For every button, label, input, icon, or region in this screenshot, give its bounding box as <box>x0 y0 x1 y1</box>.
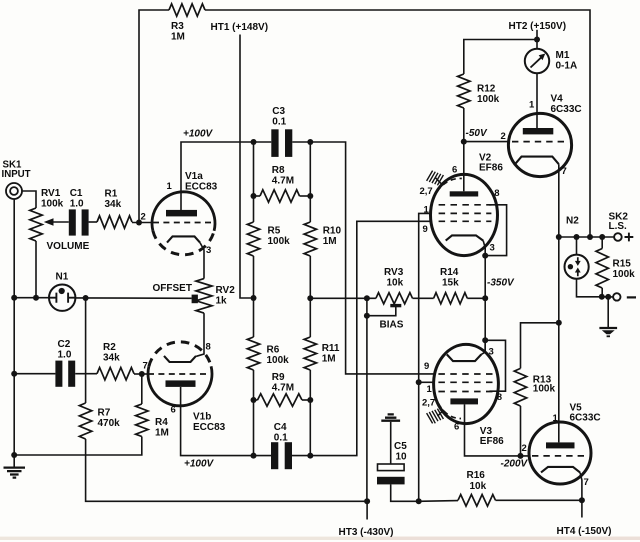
svg-text:10k: 10k <box>387 278 404 289</box>
wire (N1 to RV2 wiper / OFFSET) <box>75 297 191 299</box>
svg-text:C5: C5 <box>394 441 407 452</box>
svg-text:4.7M: 4.7M <box>272 176 294 187</box>
wire (RV3 wiper to bias node) <box>367 307 396 316</box>
V1b pin 8 label <box>206 342 211 353</box>
svg-text:1: 1 <box>424 205 430 216</box>
V3 pin 3 label <box>489 347 494 358</box>
svg-text:ECC83: ECC83 <box>185 182 218 193</box>
node dots on ground rail <box>11 295 17 458</box>
R1 value label <box>105 189 122 211</box>
svg-text:1.0: 1.0 <box>58 350 72 361</box>
svg-text:1M: 1M <box>323 236 337 247</box>
C5 value label <box>394 441 407 463</box>
node HT2 stub <box>536 30 538 40</box>
node HT4 label <box>557 526 612 537</box>
svg-text:6C33C: 6C33C <box>570 412 601 423</box>
svg-text:8: 8 <box>206 342 211 353</box>
V2 anode plate <box>450 191 479 196</box>
V1b name label <box>193 412 226 434</box>
RV3 value label <box>384 267 404 289</box>
resistor R13 <box>514 368 526 406</box>
svg-text:EF86: EF86 <box>479 162 503 173</box>
triode V1a envelope (dashed arc, shared bulb) <box>153 231 214 255</box>
wire (V3 pin1 from rail) <box>419 381 434 383</box>
V1a pin 1 label <box>167 181 173 192</box>
svg-text:V4: V4 <box>551 94 564 105</box>
svg-text:34k: 34k <box>103 353 120 364</box>
meter M1 <box>525 49 549 73</box>
svg-text:1: 1 <box>529 100 535 111</box>
wire (V2 pin1 rail down) <box>419 213 431 501</box>
wire (V2 screen pin8 step) <box>485 205 506 256</box>
svg-text:R14: R14 <box>440 267 459 278</box>
node HT4 stub <box>581 500 583 517</box>
BIAS label <box>380 320 404 331</box>
wire (R14 to V2/V3 cathode rail) <box>467 297 485 299</box>
resistor R2 <box>97 368 134 380</box>
V1a pin 2 label <box>141 212 146 223</box>
svg-text:6: 6 <box>171 405 176 416</box>
svg-text:1M: 1M <box>322 354 336 365</box>
R4 value label <box>155 417 169 439</box>
node dots left rail <box>251 193 257 459</box>
node dots right rail <box>307 193 313 459</box>
triode V1b envelope (dashed arc, shared bulb) <box>149 342 211 366</box>
wire (R12 to -50V node) <box>463 108 465 142</box>
capacitor C3 <box>271 129 292 157</box>
node dots minus node <box>599 294 611 300</box>
R11 value label <box>322 343 340 365</box>
node -350V label <box>487 278 515 289</box>
V5 pin 1 label <box>553 413 559 424</box>
svg-text:BIAS: BIAS <box>380 320 404 331</box>
C2 value label <box>58 339 72 361</box>
V3 grids (dashed rows) <box>438 374 493 392</box>
V3 chassis hatch (pins 2,7) <box>427 409 444 424</box>
wire (HT2 dot to M1) <box>536 40 538 49</box>
svg-text:R5: R5 <box>268 226 281 237</box>
V1a cathode <box>167 236 200 242</box>
svg-text:4.7M: 4.7M <box>272 383 294 394</box>
V2 pins 2,7 label <box>420 186 433 197</box>
svg-text:N2: N2 <box>566 216 579 227</box>
wire (R16 to V5 cathode node) <box>496 499 582 501</box>
wire (pin1 rail to R16) <box>419 500 458 503</box>
potentiometer RV2 <box>196 279 212 314</box>
svg-text:C1: C1 <box>70 188 83 199</box>
capacitor C1 <box>69 209 89 235</box>
triode V4 envelope <box>508 113 571 176</box>
wire (R9 stubs) <box>254 399 311 401</box>
C3 value label <box>272 106 286 128</box>
node HT1 label <box>211 22 269 33</box>
C1 value label <box>70 188 84 210</box>
wire (N2 to SK2 - node) <box>577 279 602 297</box>
wire (R15 to SK2 - node) <box>601 288 603 297</box>
wire (right ladder rail) <box>309 142 311 456</box>
V4 name label <box>551 94 582 116</box>
svg-text:R15: R15 <box>613 259 632 270</box>
resistor R10 <box>304 222 316 256</box>
svg-text:470k: 470k <box>98 418 121 429</box>
svg-text:100k: 100k <box>613 269 636 280</box>
svg-text:10k: 10k <box>470 481 487 492</box>
svg-text:2,7: 2,7 <box>422 397 435 408</box>
wire (feedback top rail, output to V1a grid node) <box>139 10 590 237</box>
node HT3 stub <box>366 501 368 519</box>
svg-text:34k: 34k <box>105 199 122 210</box>
svg-text:RV2: RV2 <box>216 285 236 296</box>
svg-text:3: 3 <box>206 245 211 256</box>
wire (R7 top lead) <box>85 298 87 403</box>
connector SK1 input jack <box>6 183 22 199</box>
resistor R1 <box>97 216 132 228</box>
node HT3 label <box>339 527 394 538</box>
resistor R6 <box>247 337 259 370</box>
wire (V5 cathode pin7 down) <box>580 472 582 500</box>
V5 cathode <box>541 467 580 473</box>
R7 value label <box>98 408 121 430</box>
RV1 wiper arrow <box>44 218 69 226</box>
wire (V3 screen pin8 step) <box>485 340 505 391</box>
wire (output to R15) <box>601 237 603 249</box>
V1a name label <box>185 171 218 193</box>
V3 name label <box>480 426 504 447</box>
wire (C1 to R1) <box>89 221 97 223</box>
svg-text:-350V: -350V <box>487 278 515 289</box>
R3 value label <box>171 21 185 43</box>
resistor R15 <box>596 249 608 289</box>
SK1 labels <box>2 160 31 181</box>
svg-text:R10: R10 <box>323 226 342 237</box>
node -200V label <box>501 459 529 470</box>
svg-text:8: 8 <box>494 188 499 199</box>
svg-text:3: 3 <box>490 243 495 254</box>
neon lamp N2 <box>565 255 589 279</box>
triode V1a envelope (solid arc) <box>152 192 215 231</box>
V5 name label <box>570 403 601 424</box>
svg-text:M1: M1 <box>556 50 570 61</box>
potentiometer RV3 <box>376 293 413 304</box>
svg-text:R8: R8 <box>272 165 285 176</box>
svg-text:HT4 (-150V): HT4 (-150V) <box>557 526 612 537</box>
page-edge band (bottom) <box>0 537 640 540</box>
node +100V (V1a anode) label <box>183 129 214 140</box>
RV2 wiper <box>192 295 198 304</box>
ground (left earth symbol) <box>4 468 26 478</box>
svg-text:7: 7 <box>143 361 148 372</box>
svg-text:V1a: V1a <box>185 171 203 182</box>
R13 value label <box>533 375 556 395</box>
wire (R2 to V1b grid) <box>134 373 148 375</box>
SK2 labels <box>609 212 629 233</box>
node dot R13 bottom <box>518 453 524 459</box>
V3 pin 1 label <box>427 384 433 395</box>
wire (RV1 bottom to ground wire) <box>35 241 37 298</box>
svg-text:9: 9 <box>424 361 429 372</box>
V5 grid (dashed) <box>532 455 588 457</box>
svg-text:V1b: V1b <box>193 412 211 423</box>
svg-text:0.1: 0.1 <box>274 433 288 444</box>
V4 cathode <box>515 157 559 165</box>
resistor R9 <box>258 394 303 406</box>
svg-text:R3: R3 <box>171 21 184 32</box>
svg-text:7: 7 <box>584 477 589 488</box>
node -50V label <box>466 128 488 139</box>
V3 internal shield (dashed arc) <box>439 404 462 419</box>
wire (V1a cathode pin3 down) <box>200 243 204 279</box>
svg-text:+100V: +100V <box>183 129 214 140</box>
wire (right rail to RV3) <box>310 297 376 299</box>
R6 value label <box>267 345 290 367</box>
V2 cathode <box>446 235 484 240</box>
V2 name label <box>479 153 503 174</box>
wire (HT2 to R12) <box>464 40 537 75</box>
svg-text:-50V: -50V <box>466 128 488 139</box>
node HT2 label <box>509 21 567 32</box>
svg-text:R2: R2 <box>103 342 116 353</box>
V3 pins 2,7 label <box>422 397 435 408</box>
svg-text:2: 2 <box>522 443 527 454</box>
N1 label <box>56 272 69 283</box>
wire (cathode rail -350V) <box>484 256 486 353</box>
pentode V3 envelope <box>434 344 499 423</box>
wire (R7 bottom to HT3 rail) <box>86 439 368 501</box>
wire (output node to SK2 +) <box>559 236 614 238</box>
V1b anode plate <box>166 380 196 387</box>
RV1 value label <box>41 188 64 210</box>
wire (left ladder rail) <box>253 142 255 456</box>
V1a pin 3 label <box>206 245 211 256</box>
wire (chassis to C5 +) <box>390 422 392 464</box>
RV3 wiper tick <box>390 304 401 307</box>
wire (ground to C2) <box>14 373 55 375</box>
RV2 value label <box>216 285 236 307</box>
node +100V (V1b anode) label <box>184 459 215 470</box>
svg-text:EF86: EF86 <box>480 436 504 447</box>
wire (V3 cathode pin3 up) <box>481 340 485 354</box>
svg-text:10: 10 <box>396 452 408 463</box>
V5 pin 2 label <box>522 443 527 454</box>
V4 pin 7 label <box>562 166 567 177</box>
svg-text:R1: R1 <box>105 189 118 200</box>
V5 anode plate <box>546 442 575 448</box>
connector SK2 - terminal <box>613 293 636 300</box>
R14 value label <box>440 267 459 289</box>
svg-text:1.0: 1.0 <box>70 199 84 210</box>
svg-text:6: 6 <box>452 165 457 176</box>
R15 value label <box>613 259 636 281</box>
wire (V4 cathode pin7 to output rail) <box>558 164 560 237</box>
wire (R1 to V1a grid) <box>132 222 152 224</box>
wire (minus node) <box>602 296 613 298</box>
wire (jack to volume pot) <box>22 191 36 208</box>
svg-text:100k: 100k <box>268 236 291 247</box>
wire (ground rail left) <box>13 199 15 467</box>
triode V5 envelope <box>529 422 591 484</box>
svg-text:HT1 (+148V): HT1 (+148V) <box>211 22 269 33</box>
node dot V1b pin7 junction <box>139 371 145 377</box>
svg-text:0-1A: 0-1A <box>556 60 578 71</box>
node dots bias <box>364 295 370 504</box>
R10 value label <box>323 226 342 248</box>
V1a anode plate <box>166 210 197 217</box>
resistor R7 <box>79 403 91 439</box>
svg-text:1M: 1M <box>155 428 169 439</box>
V1b pin 6 label <box>171 405 176 416</box>
R12 value label <box>477 84 500 106</box>
neon lamp N1 <box>49 285 75 311</box>
node dots output <box>556 234 605 240</box>
svg-text:+100V: +100V <box>184 459 215 470</box>
V5 pin 7 label <box>584 477 589 488</box>
wire (R4 bottom / ground return) <box>14 437 142 456</box>
V2 pin 6 label <box>452 165 457 176</box>
V1b cathode <box>164 356 196 362</box>
R9 value label <box>272 372 294 394</box>
resistor R5 <box>247 222 259 256</box>
svg-text:9: 9 <box>423 224 428 235</box>
svg-text:100k: 100k <box>477 94 500 105</box>
V3 pin 9 label <box>424 361 429 372</box>
V2 pin 9 label <box>423 224 428 235</box>
node dot -50V <box>461 139 467 145</box>
M1 label <box>556 50 578 71</box>
svg-text:INPUT: INPUT <box>2 169 31 180</box>
svg-text:7: 7 <box>562 166 567 177</box>
wire (V1b anode rail y=455.6) <box>181 221 431 455</box>
wire (minus node to ground) <box>607 297 609 327</box>
OFFSET label <box>153 283 192 294</box>
R2 value label <box>103 342 120 364</box>
wire (RV2 bottom to V1b pin8) <box>196 313 204 356</box>
svg-text:RV1: RV1 <box>41 188 61 199</box>
node dots pin1 rail <box>416 379 422 504</box>
svg-text:R12: R12 <box>477 84 496 95</box>
svg-text:RV3: RV3 <box>384 267 404 278</box>
svg-text:2: 2 <box>141 212 146 223</box>
wire (C2 to R2) <box>75 373 97 375</box>
wire (V2 cathode pin3 down) <box>483 241 485 256</box>
wire (RV3 to R14) <box>413 297 434 299</box>
resistor R12 <box>458 74 470 108</box>
capacitor C4 <box>271 442 292 469</box>
triode V1b envelope (solid arc) <box>148 366 212 406</box>
svg-text:N1: N1 <box>56 272 69 283</box>
wire (M1 to V4 anode pin1) <box>536 73 538 130</box>
connector SK2 + terminal <box>614 233 633 242</box>
V3 pin 6 label <box>454 422 459 433</box>
wire (output rail to V5 anode pin1) <box>558 237 560 442</box>
V4 grid (dashed) <box>512 141 568 143</box>
wire (V2 anode pin6 up) <box>463 142 465 192</box>
node junction dots on +100V rail <box>251 139 314 145</box>
wire (R4 top lead) <box>141 374 143 404</box>
wire (R13 bottom lead) <box>520 406 522 456</box>
resistor R3 <box>169 4 205 16</box>
potentiometer RV1 <box>30 208 42 241</box>
pentode V2 envelope <box>431 174 498 255</box>
V4 anode plate <box>523 128 554 134</box>
svg-text:100k: 100k <box>267 355 290 366</box>
svg-text:6C33C: 6C33C <box>551 104 582 115</box>
V4 pin 1 label <box>529 100 535 111</box>
wire (R8 stubs) <box>254 195 311 197</box>
svg-text:2,7: 2,7 <box>420 186 433 197</box>
svg-text:C4: C4 <box>274 422 287 433</box>
V1b pin 7 label <box>143 361 148 372</box>
wire (-50V to V4 grid) <box>464 141 509 143</box>
svg-text:6: 6 <box>454 422 459 433</box>
node dot V1a pin2 junction <box>136 220 142 226</box>
svg-text:OFFSET: OFFSET <box>153 283 192 294</box>
V3 anode plate <box>450 398 478 404</box>
svg-text:R6: R6 <box>267 345 280 356</box>
svg-text:100k: 100k <box>41 199 64 210</box>
svg-text:VOLUME: VOLUME <box>47 241 90 252</box>
svg-text:1M: 1M <box>171 32 185 43</box>
svg-text:8: 8 <box>497 392 502 402</box>
V2 pin 8 label <box>494 188 499 199</box>
V2 grids (dashed rows) <box>439 205 492 222</box>
wire (HT1 feed to R5/R6 junction) <box>240 35 251 299</box>
wire (output to N2) <box>576 237 578 255</box>
V2 pin 1 label <box>424 205 430 216</box>
svg-text:R16: R16 <box>467 470 486 481</box>
svg-text:2: 2 <box>501 131 506 142</box>
node dots cathode rail <box>482 253 488 344</box>
node dot HT4 junction <box>579 497 585 503</box>
R16 value label <box>467 470 487 492</box>
wire (ground to N1) <box>14 297 49 299</box>
svg-text:0.1: 0.1 <box>272 117 286 128</box>
V2 internal shield (dashed arc) <box>437 178 462 191</box>
node dot N1 right junction <box>83 295 89 301</box>
node dot R13 top <box>556 320 562 326</box>
V3 pin 8 label <box>497 392 502 402</box>
capacitor C2 <box>55 361 75 387</box>
wire (R13 top lead) <box>521 323 559 369</box>
V3 cathode <box>447 354 482 361</box>
node dot HT2 <box>534 37 540 43</box>
wire (V1a anode rail y=142) <box>181 142 435 374</box>
svg-text:15k: 15k <box>442 278 459 289</box>
svg-text:1k: 1k <box>216 296 228 307</box>
capacitor C5 + plate <box>378 464 405 471</box>
wire (C5 - to HT3/R16 rail) <box>391 484 419 501</box>
chassis ground (above C5) <box>381 414 400 420</box>
capacitor C5 - plate <box>377 477 405 485</box>
svg-text:R7: R7 <box>98 408 111 419</box>
svg-text:HT3 (-430V): HT3 (-430V) <box>339 527 394 538</box>
svg-text:1: 1 <box>167 181 173 192</box>
V1b grid (dashed) <box>148 373 209 375</box>
svg-text:C2: C2 <box>58 339 71 350</box>
svg-text:R9: R9 <box>272 372 285 383</box>
ground (output earth symbol) <box>599 328 617 336</box>
svg-text:R4: R4 <box>155 417 168 428</box>
V2 pin 3 label <box>490 243 495 254</box>
svg-text:-200V: -200V <box>501 459 529 470</box>
svg-text:R11: R11 <box>322 343 340 354</box>
resistor R11 <box>304 337 316 370</box>
R8 value label <box>272 165 294 187</box>
node dot RV1 bottom <box>33 295 39 301</box>
resistor R16 <box>458 495 496 507</box>
resistor R8 <box>260 190 300 202</box>
V4 pin 2 label <box>501 131 506 142</box>
svg-text:ECC83: ECC83 <box>193 422 226 433</box>
